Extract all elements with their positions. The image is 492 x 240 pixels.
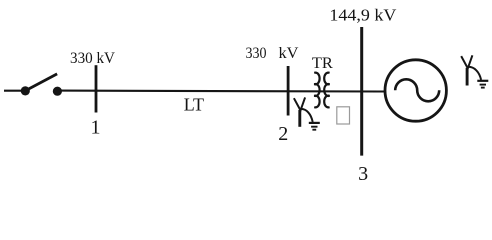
svg-text:1: 1 [91,116,101,138]
svg-text:2: 2 [278,123,288,145]
svg-text:330 kV: 330 kV [70,50,115,67]
svg-text:330: 330 [246,45,267,62]
svg-text:144,9 kV: 144,9 kV [329,5,397,24]
svg-text:TR: TR [312,55,333,72]
svg-text:LT: LT [184,95,204,115]
svg-text:kV: kV [279,45,299,62]
svg-text:3: 3 [358,163,368,185]
